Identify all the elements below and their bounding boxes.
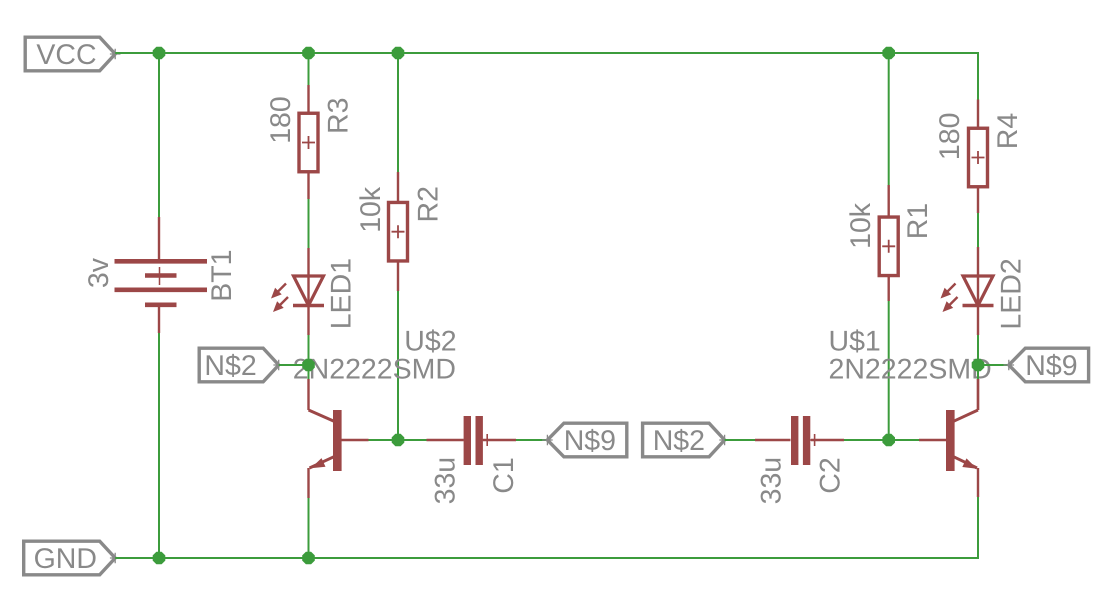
net flag N$2 left tip cross: [273, 360, 284, 371]
capacitor C1 right lead: [483, 439, 516, 441]
resistor R3 top pin: [307, 85, 309, 114]
wire top rail right drop to R4: [977, 52, 979, 100]
wire C2 to base junction right: [844, 439, 889, 441]
transistor U$1 emitter pin: [977, 468, 979, 497]
svg-text:2N2222SMD: 2N2222SMD: [829, 353, 992, 385]
wire base junction to C1: [398, 439, 427, 441]
transistor U$2 emitter arrowhead: [311, 458, 326, 468]
svg-text:3v: 3v: [83, 257, 115, 288]
capacitor C1 right plate: [476, 416, 483, 465]
svg-text:VCC: VCC: [36, 39, 96, 71]
resistor R2 body: [389, 202, 408, 261]
capacitor C2 right plate: [803, 416, 810, 465]
resistor R2 top pin: [397, 172, 399, 203]
LED LED1 center line through triangle: [307, 276, 309, 306]
svg-text:BT1: BT1: [206, 250, 238, 302]
supply flag VCC tip cross: [110, 49, 121, 60]
capacitor C2 origin cross: [809, 434, 821, 446]
wire C1 to N$9 flag: [516, 439, 547, 441]
resistor R3 body: [299, 113, 318, 172]
LED LED1 triangle: [294, 276, 324, 306]
transistor U$1 emitter arrowhead: [962, 458, 977, 468]
battery BT1 positive pin: [158, 217, 160, 261]
battery BT1 negative pin: [158, 305, 160, 333]
battery BT1 plate short 2: [145, 302, 177, 307]
resistor R4 body: [969, 128, 988, 187]
junction top rail at R3: [302, 47, 315, 60]
wire LED1 to node N$2 junction: [308, 335, 310, 379]
wire junction to U$1 base: [889, 439, 919, 441]
wire top rail to R2: [397, 53, 399, 172]
svg-text:N$9: N$9: [564, 425, 616, 457]
battery BT1 origin cross: [151, 267, 169, 285]
junction top rail at R1: [882, 47, 895, 60]
net flag N$9 middle tip cross: [542, 435, 553, 446]
battery BT1 plate long 2: [115, 287, 208, 292]
LED LED1 cathode pin: [307, 306, 309, 336]
capacitor C1 left plate: [464, 416, 471, 465]
wire GND bottom rail: [115, 557, 978, 559]
junction node N$2 at LED1/collector: [302, 359, 315, 372]
LED LED2 cathode pin: [977, 306, 979, 336]
wire U$2 emitter to GND rail: [308, 498, 310, 558]
svg-text:R2: R2: [412, 186, 444, 222]
svg-text:2N2222SMD: 2N2222SMD: [293, 353, 456, 385]
transistor U$1 collector diagonal: [954, 410, 979, 421]
junction top rail at battery: [153, 47, 166, 60]
svg-text:N$2: N$2: [653, 425, 705, 457]
capacitor C1 origin cross: [481, 434, 493, 446]
LED LED2 anode pin: [977, 247, 979, 276]
resistor R1 top pin: [888, 185, 890, 217]
wire battery to GND: [158, 333, 160, 558]
resistor R1 bottom pin: [888, 276, 890, 302]
junction node at U$1 base / R1 / C2: [882, 434, 895, 447]
junction bottom rail at U$2 emitter: [302, 552, 315, 565]
wire N$2 flag to C2: [725, 439, 755, 441]
svg-text:R4: R4: [992, 113, 1024, 150]
junction top rail at R2: [392, 47, 405, 60]
resistor R1 body: [879, 217, 898, 275]
transistor U$2 base bar: [333, 410, 342, 471]
supply flag VCC: [25, 37, 115, 71]
wire R4 to LED2: [977, 213, 979, 247]
svg-text:N$9: N$9: [1025, 350, 1077, 382]
svg-text:R3: R3: [322, 98, 354, 134]
transistor U$2 emitter diagonal: [310, 457, 335, 468]
junction node N$9 at LED2/collector: [972, 359, 985, 372]
resistor R4 origin cross: [972, 151, 985, 164]
svg-text:33u: 33u: [430, 457, 462, 505]
transistor U$1 base pin: [919, 439, 946, 441]
wire N$2 flag to junction: [279, 364, 309, 366]
transistor U$2 emitter pin: [307, 468, 309, 498]
wire junction to N$9 flag right: [978, 364, 1009, 366]
capacitor C1 left lead: [427, 439, 464, 441]
resistor R4 bottom pin: [977, 187, 979, 213]
LED LED1 cathode bar: [293, 304, 324, 307]
wire R2 to base junction: [397, 291, 399, 440]
transistor U$1 collector pin: [977, 379, 979, 410]
capacitor C2 right lead: [811, 439, 844, 441]
resistor R1 origin cross: [882, 240, 895, 253]
resistor R2 origin cross: [392, 225, 405, 238]
wire top rail to R3: [308, 53, 310, 85]
wire VCC top rail: [115, 52, 978, 54]
wire R1 to base junction: [888, 301, 890, 440]
resistor R3 bottom pin: [307, 172, 309, 199]
net flag N$2 right: [643, 423, 725, 457]
junction node at U$2 base / R2 / C1: [392, 434, 405, 447]
wire LED2 to node N$9 junction: [977, 335, 979, 379]
svg-text:C1: C1: [488, 457, 520, 493]
net flag N$2 left: [199, 348, 279, 382]
LED LED1 emission arrow 2: [278, 297, 288, 307]
capacitor C2 left lead: [755, 439, 791, 441]
svg-text:180: 180: [934, 113, 966, 161]
transistor U$1 base bar: [946, 410, 955, 471]
junction bottom rail at battery: [153, 552, 166, 565]
supply flag GND: [24, 541, 116, 575]
LED LED2 center line through triangle: [977, 276, 979, 306]
svg-text:180: 180: [265, 96, 297, 144]
wire bottom rail right rise to Q1 emitter: [977, 497, 979, 559]
battery BT1 plate long 1: [115, 259, 208, 264]
transistor U$1 emitter diagonal: [954, 457, 978, 468]
battery BT1 plate short 1: [145, 273, 177, 278]
net flag N$9 right: [1009, 348, 1089, 382]
svg-text:C2: C2: [815, 457, 847, 493]
LED LED1 anode pin: [307, 248, 309, 276]
wire R3 to LED1: [308, 199, 310, 248]
resistor R3 origin cross: [302, 136, 315, 149]
svg-text:33u: 33u: [756, 457, 788, 505]
resistor R2 bottom pin: [397, 261, 399, 291]
svg-text:R1: R1: [902, 203, 934, 239]
supply flag GND tip cross: [110, 553, 121, 564]
wire base U$2 to junction: [369, 439, 399, 441]
resistor R4 top pin: [977, 100, 979, 129]
svg-text:10k: 10k: [355, 186, 387, 233]
wire top rail to R1: [888, 53, 890, 185]
LED LED2 cathode bar: [963, 304, 994, 307]
LED LED1 emission arrow 1: [276, 284, 286, 294]
net flag N$2 right tip cross: [719, 435, 730, 446]
transistor U$2 base pin: [342, 439, 369, 441]
LED LED2 emission arrow 2: [948, 297, 958, 307]
transistor U$1 collector pin upper stub: [977, 379, 979, 410]
svg-text:LED2: LED2: [996, 258, 1028, 329]
capacitor C2 left plate: [791, 416, 798, 465]
net flag N$9 middle: [547, 423, 626, 457]
svg-text:GND: GND: [34, 543, 97, 575]
LED LED2 triangle: [963, 276, 993, 306]
net flag N$9 right tip cross: [1004, 360, 1015, 371]
transistor U$2 collector diagonal: [309, 410, 335, 421]
svg-text:N$2: N$2: [204, 350, 256, 382]
LED LED2 emission arrow 1: [946, 284, 956, 294]
wire VCC to battery: [158, 53, 160, 217]
transistor U$2 collector pin: [307, 379, 309, 410]
svg-text:10k: 10k: [845, 202, 877, 249]
svg-text:LED1: LED1: [325, 258, 357, 329]
